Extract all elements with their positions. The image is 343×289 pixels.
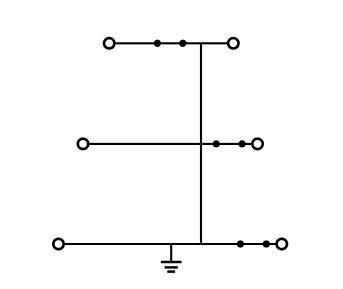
terminal O2: level 1 right clamp xyxy=(228,38,238,48)
wire: level 2 horizontal conductor xyxy=(89,143,251,145)
junction dot: level 1 test point a xyxy=(154,40,161,47)
wire: vertical commoning link xyxy=(200,43,202,244)
terminal O5: level 3 left clamp xyxy=(53,239,63,249)
terminal O4: level 2 right clamp xyxy=(252,139,262,149)
junction dot: level 2 test point a xyxy=(213,140,220,147)
terminal O3: level 2 left clamp xyxy=(78,139,88,149)
terminal O6: level 3 right clamp xyxy=(277,239,287,249)
junction dot: level 1 test point b xyxy=(179,40,186,47)
ground xyxy=(161,244,182,272)
junction dot: level 3 test point a xyxy=(237,240,244,247)
terminal O1: level 1 left clamp xyxy=(104,38,114,48)
wire: level 1 horizontal conductor xyxy=(115,42,227,44)
wire: level 3 horizontal conductor xyxy=(65,243,276,245)
junction dot: level 3 test point b xyxy=(263,240,270,247)
junction dot: level 2 test point b xyxy=(238,140,245,147)
